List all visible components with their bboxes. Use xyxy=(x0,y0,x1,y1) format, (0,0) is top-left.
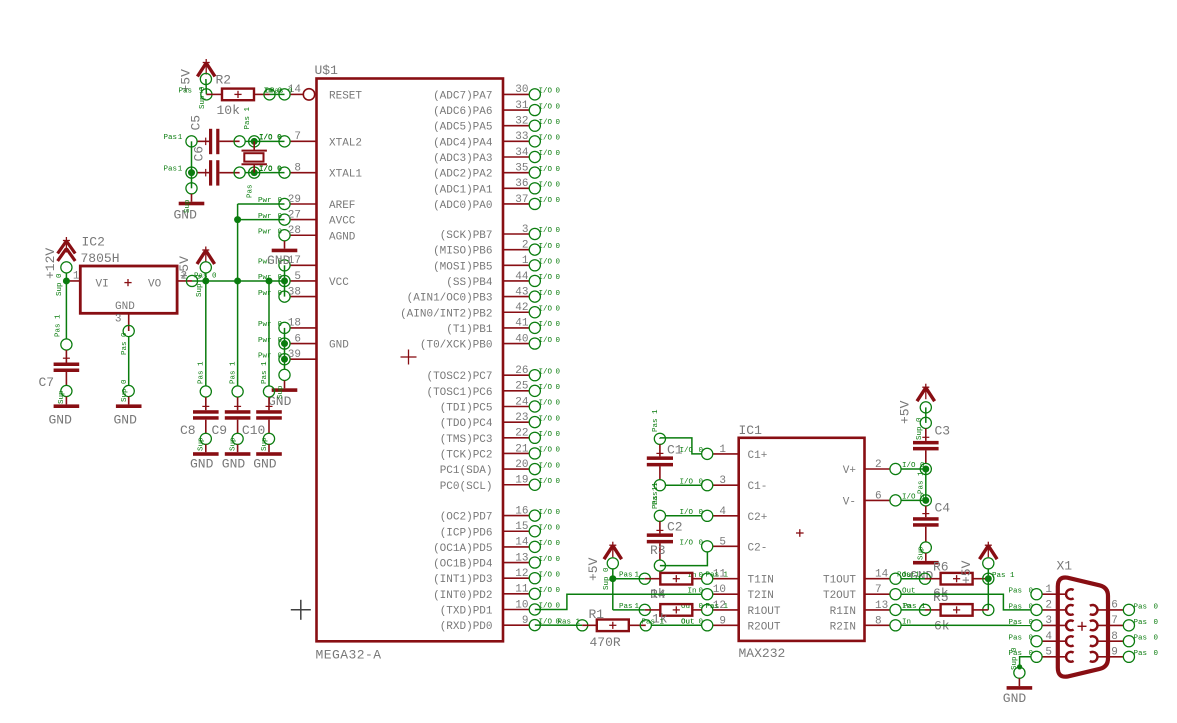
wire +5V to C3 xyxy=(925,407,927,423)
svg-text:0: 0 xyxy=(1154,603,1159,611)
U$1 pin 13 (OC1B)PD4 xyxy=(433,552,560,570)
svg-text:Sup: Sup xyxy=(184,199,192,213)
svg-text:41: 41 xyxy=(515,318,529,330)
svg-text:1: 1 xyxy=(178,165,183,173)
svg-text:PC1(SDA): PC1(SDA) xyxy=(440,465,493,477)
svg-text:8: 8 xyxy=(294,162,301,174)
junction R6 right / +5V / R5 xyxy=(983,573,994,584)
svg-text:Pas 0: Pas 0 xyxy=(270,87,293,95)
text Sup 0 c7 gnd xyxy=(58,390,66,404)
wire RXD PD0 to R1 xyxy=(535,624,582,626)
svg-text:1: 1 xyxy=(522,255,529,267)
text Sup 0 +12v xyxy=(56,273,64,296)
pin circle IC2 pin3 xyxy=(123,325,134,336)
svg-text:GND: GND xyxy=(222,457,246,472)
svg-text:C2-: C2- xyxy=(748,542,768,554)
svg-text:29: 29 xyxy=(288,194,301,206)
svg-text:T1OUT: T1OUT xyxy=(823,575,856,587)
pin circle R3 left xyxy=(639,573,650,584)
svg-text:R2OUT: R2OUT xyxy=(748,621,781,633)
label R1 value 470R xyxy=(590,635,621,650)
svg-text:Sup: Sup xyxy=(198,437,206,451)
pin circle X1 gnd xyxy=(1014,667,1025,678)
svg-text:I/O: I/O xyxy=(539,337,553,345)
IC IC1 MAX232 body xyxy=(739,438,865,641)
svg-text:3: 3 xyxy=(1045,615,1052,627)
svg-text:0: 0 xyxy=(278,321,283,329)
svg-text:GND: GND xyxy=(329,340,349,352)
svg-text:38: 38 xyxy=(288,286,301,298)
text Rds 1 t1out xyxy=(897,572,920,580)
wire C1 bottom to pin3 xyxy=(665,484,701,486)
IC1 pin 6 V- xyxy=(843,490,925,508)
text Sup 0 c4 gnd xyxy=(918,546,926,560)
svg-text:I/O: I/O xyxy=(539,571,553,579)
text I/O 0 XTAL2 xyxy=(259,134,282,142)
svg-text:R3: R3 xyxy=(650,543,666,558)
ground symbol (X1 pin 5) xyxy=(1007,678,1033,689)
C6 left lead xyxy=(197,169,209,177)
svg-text:I/O: I/O xyxy=(539,135,553,143)
svg-text:1: 1 xyxy=(719,444,726,456)
pin circle C7 top xyxy=(61,339,72,350)
IC1 pin 1 C1+ xyxy=(680,444,768,462)
junction rail / C10 xyxy=(266,277,273,284)
svg-text:T2OUT: T2OUT xyxy=(823,590,856,602)
svg-text:(ADC2)PA2: (ADC2)PA2 xyxy=(433,169,492,181)
svg-text:1: 1 xyxy=(1045,584,1052,596)
svg-text:7: 7 xyxy=(294,131,301,143)
svg-text:0: 0 xyxy=(556,478,561,486)
svg-text:+5V: +5V xyxy=(177,256,192,280)
svg-text:14: 14 xyxy=(515,537,529,549)
svg-text:2: 2 xyxy=(522,239,529,251)
svg-text:0: 0 xyxy=(556,135,561,143)
text Pas 1 r5 left xyxy=(903,603,926,611)
svg-text:V+: V+ xyxy=(843,465,856,477)
label IC1 name xyxy=(739,423,763,438)
junction C3 bottom xyxy=(922,466,929,473)
svg-text:1: 1 xyxy=(178,134,183,142)
capacitor C10 xyxy=(256,397,282,433)
U$1 pin 5 xyxy=(258,271,349,289)
svg-text:I/O: I/O xyxy=(259,134,273,142)
svg-text:Pas: Pas xyxy=(1134,619,1148,627)
X1 pin 1 xyxy=(1009,584,1074,600)
svg-text:27: 27 xyxy=(288,209,301,221)
pin circle C8 bottom xyxy=(200,433,211,444)
svg-text:0: 0 xyxy=(556,321,561,329)
svg-text:R1: R1 xyxy=(589,607,605,622)
label IC1 value MAX232 xyxy=(739,646,786,661)
pin circle C9 bottom xyxy=(232,433,243,444)
wire T2OUT to X1 pin2 xyxy=(901,594,1031,610)
U$1 pin 9 (RXD)PD0 xyxy=(440,615,561,633)
U$1 pin 7 xyxy=(259,131,362,149)
resistor R3 xyxy=(645,573,702,585)
svg-text:Pas 1: Pas 1 xyxy=(261,361,269,384)
svg-text:C7: C7 xyxy=(39,375,55,390)
svg-text:Pas: Pas xyxy=(164,165,178,173)
junction GND pin 6 xyxy=(281,340,288,347)
U$1 pin 43 (AIN1/OC0)PB3 xyxy=(407,286,561,304)
text Sup C9 gnd xyxy=(229,437,237,451)
label C9 name xyxy=(212,423,228,438)
svg-text:I/O: I/O xyxy=(539,305,553,313)
svg-text:C2+: C2+ xyxy=(748,512,768,524)
svg-text:Pas: Pas xyxy=(179,87,193,95)
label GND agnd xyxy=(267,253,291,268)
svg-text:3: 3 xyxy=(115,314,122,326)
svg-text:I/O: I/O xyxy=(259,165,273,173)
svg-text:31: 31 xyxy=(515,100,529,112)
svg-text:I/O: I/O xyxy=(539,290,553,298)
svg-text:0: 0 xyxy=(1154,619,1159,627)
svg-text:25: 25 xyxy=(515,381,528,393)
text Pas 1 r3 left xyxy=(619,572,640,580)
X1 pin 8 xyxy=(1090,631,1159,647)
wire +5V down xyxy=(205,273,207,281)
svg-text:6: 6 xyxy=(294,333,301,345)
svg-text:GND: GND xyxy=(115,301,135,313)
svg-text:11: 11 xyxy=(515,584,529,596)
svg-text:C8: C8 xyxy=(180,423,196,438)
svg-text:28: 28 xyxy=(288,225,301,237)
U$1 pin 32 (ADC5)PA5 xyxy=(433,116,560,134)
IC1 pin 4 C2+ xyxy=(680,506,768,524)
svg-text:Pas 1: Pas 1 xyxy=(244,106,252,129)
X1 pin 9 xyxy=(1090,647,1159,663)
svg-text:0: 0 xyxy=(556,415,561,423)
svg-text:AGND: AGND xyxy=(329,231,356,243)
svg-text:44: 44 xyxy=(515,271,529,283)
svg-text:XTAL1: XTAL1 xyxy=(329,169,362,181)
IC1 pin 12 R1OUT xyxy=(681,600,781,618)
pin circle C10 bottom xyxy=(263,433,274,444)
label VO xyxy=(148,279,162,291)
svg-text:Pas: Pas xyxy=(1009,588,1023,596)
svg-text:GND: GND xyxy=(114,413,138,428)
svg-text:(AIN1/OC0)PB3: (AIN1/OC0)PB3 xyxy=(407,293,493,305)
svg-text:Pas 1: Pas 1 xyxy=(198,361,206,384)
junction rail / C9 xyxy=(234,277,241,284)
svg-text:2: 2 xyxy=(1045,600,1052,612)
svg-text:(TOSC1)PC6: (TOSC1)PC6 xyxy=(426,387,492,399)
svg-text:MAX232: MAX232 xyxy=(739,646,786,661)
svg-text:Pas: Pas xyxy=(164,134,178,142)
svg-text:Pas 1: Pas 1 xyxy=(706,603,729,611)
wire +12V to VI xyxy=(65,273,67,281)
wire VCC pins 17-38 vertical xyxy=(284,265,286,296)
svg-text:+5V: +5V xyxy=(898,400,913,424)
IC1 pin 11 T1IN xyxy=(688,569,774,587)
svg-text:(ADC4)PA4: (ADC4)PA4 xyxy=(433,137,493,149)
text Pas 1 crystal top xyxy=(244,106,252,129)
capacitor C7 xyxy=(54,350,80,385)
svg-text:26: 26 xyxy=(515,365,528,377)
svg-text:0: 0 xyxy=(556,182,561,190)
label GND c10 xyxy=(253,457,277,472)
svg-text:0: 0 xyxy=(556,259,561,267)
U$1 pin 23 (TDO)PC4 xyxy=(440,412,561,430)
wire AREF/AVCC column xyxy=(237,204,239,281)
text Pas 1 (R2 left pin) xyxy=(179,87,205,95)
svg-text:I/O: I/O xyxy=(539,384,553,392)
svg-text:AVCC: AVCC xyxy=(329,216,356,228)
svg-text:0: 0 xyxy=(1029,588,1034,596)
svg-text:Sup 0: Sup 0 xyxy=(121,379,129,402)
wire R1 to R2OUT xyxy=(651,624,701,626)
svg-text:0: 0 xyxy=(556,462,561,470)
pin circle C3 top xyxy=(920,417,931,428)
capacitor C9 xyxy=(225,397,251,433)
wire R2IN to X1 pin3 xyxy=(901,624,1031,626)
U$1 pin 1 (MOSI)PB5 xyxy=(433,255,560,273)
IC U$1 MEGA32-A body xyxy=(317,79,504,642)
U$1 pin 11 (INT0)PD2 xyxy=(433,584,560,602)
label R5 value 6k xyxy=(934,619,950,634)
svg-text:0: 0 xyxy=(556,524,561,532)
U$1 pin 31 (ADC6)PA6 xyxy=(433,100,560,118)
svg-text:0: 0 xyxy=(556,274,561,282)
svg-text:0: 0 xyxy=(556,571,561,579)
X1 pin 7 xyxy=(1090,615,1159,631)
svg-text:Pas: Pas xyxy=(1134,650,1148,658)
ground symbol (C9) xyxy=(225,444,251,455)
wire V+ to C3 xyxy=(901,468,926,470)
X1 pin 6 xyxy=(1090,600,1159,616)
IC1 pin 3 C1- xyxy=(680,475,768,493)
U$1 pin 40 (T0/XCK)PB0 xyxy=(420,333,561,351)
label GND c8 xyxy=(190,457,214,472)
svg-text:I/O: I/O xyxy=(539,321,553,329)
ground symbol (C4) xyxy=(913,553,939,564)
label R3 name xyxy=(650,543,666,558)
svg-text:IC1: IC1 xyxy=(739,423,763,438)
svg-text:Rds 1: Rds 1 xyxy=(897,572,920,580)
resistor R4 xyxy=(645,604,702,616)
svg-text:0: 0 xyxy=(556,119,561,127)
pin circle R1 left xyxy=(577,620,588,631)
IC1 pin 8 R2IN xyxy=(830,615,911,633)
svg-text:Pas 1: Pas 1 xyxy=(918,471,926,494)
label U$1 value MEGA32-A xyxy=(316,648,382,663)
svg-text:XTAL2: XTAL2 xyxy=(329,137,362,149)
svg-text:(RXD)PD0: (RXD)PD0 xyxy=(440,621,493,633)
svg-text:(T0/XCK)PB0: (T0/XCK)PB0 xyxy=(420,340,493,352)
svg-text:I/O: I/O xyxy=(539,166,553,174)
capacitor C1 xyxy=(647,444,673,480)
power +12V xyxy=(58,237,76,261)
svg-text:13: 13 xyxy=(515,552,528,564)
svg-text:Sup: Sup xyxy=(277,385,285,399)
pin circle R1 right xyxy=(640,620,651,631)
junction C4 top xyxy=(922,497,929,504)
text Pas 1 r4 right xyxy=(706,603,729,611)
svg-text:R6: R6 xyxy=(933,560,949,575)
wire +5V to R4 column xyxy=(612,579,614,610)
svg-text:C9: C9 xyxy=(212,423,228,438)
svg-text:0: 0 xyxy=(556,197,561,205)
svg-text:Sup 0: Sup 0 xyxy=(56,273,64,296)
svg-text:R1OUT: R1OUT xyxy=(748,606,781,618)
U$1 pin 8 xyxy=(259,162,362,180)
pin circle C1 bottom xyxy=(654,480,665,491)
svg-text:(SCK)PB7: (SCK)PB7 xyxy=(440,230,493,242)
text Pas 1 r3 right xyxy=(706,572,729,580)
IC2 pin 2 VO xyxy=(177,270,192,282)
wire TXD PD1 to T2IN xyxy=(535,594,702,609)
text Pas 1 c7 top xyxy=(55,314,63,337)
text Pas 1 C9 top xyxy=(229,361,237,384)
svg-text:GND: GND xyxy=(190,457,214,472)
svg-text:Pas 1: Pas 1 xyxy=(706,572,729,580)
svg-text:(OC2)PD7: (OC2)PD7 xyxy=(440,512,493,524)
U$1 pin 42 (AIN0/INT2)PB2 xyxy=(400,302,560,320)
svg-text:I/O: I/O xyxy=(539,88,553,96)
sheet origin cross xyxy=(291,600,311,620)
capacitor C8 xyxy=(193,397,219,433)
svg-text:15: 15 xyxy=(515,521,528,533)
wire +5V max down xyxy=(612,569,614,579)
junction x1 gnd xyxy=(1017,664,1022,669)
text Pas 1 C5 left xyxy=(164,134,183,142)
pin circle +5V vcc supply xyxy=(200,262,211,273)
svg-text:0: 0 xyxy=(278,228,283,236)
label GND xtal xyxy=(174,208,198,223)
power +5V (max232) xyxy=(604,542,622,560)
svg-text:PC0(SCL): PC0(SCL) xyxy=(440,481,493,493)
svg-text:U$1: U$1 xyxy=(315,63,339,78)
svg-text:Pas: Pas xyxy=(619,603,633,611)
svg-text:(MISO)PB6: (MISO)PB6 xyxy=(433,246,492,258)
U$1 pin 22 (TMS)PC3 xyxy=(440,428,561,446)
X1 center cross xyxy=(1078,622,1087,631)
pin circle C4 top xyxy=(920,495,931,506)
svg-text:I/O: I/O xyxy=(539,524,553,532)
pin circle C6 right xyxy=(234,167,245,178)
pin circle C7 bottom xyxy=(61,385,72,396)
svg-text:(ICP)PD6: (ICP)PD6 xyxy=(440,527,493,539)
svg-text:+5V: +5V xyxy=(959,560,974,584)
svg-text:C1+: C1+ xyxy=(748,450,768,462)
U$1 pin 10 (TXD)PD1 xyxy=(440,599,561,617)
svg-text:0: 0 xyxy=(556,509,561,517)
U$1 pin 36 (ADC1)PA1 xyxy=(433,178,560,196)
svg-text:T2IN: T2IN xyxy=(748,590,774,602)
power +5V (serial pull-up) xyxy=(980,542,998,560)
IC1 internal cross xyxy=(796,529,804,537)
pin circle R6 left xyxy=(919,573,930,584)
svg-text:20: 20 xyxy=(515,459,528,471)
svg-text:Pas 1: Pas 1 xyxy=(903,603,926,611)
svg-text:0: 0 xyxy=(556,447,561,455)
svg-text:0: 0 xyxy=(277,134,282,142)
svg-text:0: 0 xyxy=(1029,619,1034,627)
U$1 pin 38 xyxy=(258,286,317,302)
pin circle +5V supply xyxy=(200,73,211,84)
wire R2 to RESET pin xyxy=(270,93,285,95)
svg-text:0: 0 xyxy=(1154,635,1159,643)
wire XTAL2 row xyxy=(245,140,284,142)
svg-text:I/O: I/O xyxy=(539,462,553,470)
pin circle R2 left xyxy=(201,89,212,100)
svg-text:9: 9 xyxy=(719,615,726,627)
svg-text:Pas: Pas xyxy=(619,572,633,580)
svg-text:Pas 1: Pas 1 xyxy=(992,572,1015,580)
label U$1 name xyxy=(315,63,339,78)
resistor R5 xyxy=(925,604,988,616)
svg-text:8: 8 xyxy=(875,615,882,627)
label GND x1 xyxy=(1003,691,1027,706)
text Pas 0 vo pin xyxy=(194,272,217,280)
svg-text:Pas: Pas xyxy=(1134,635,1148,643)
svg-text:(OC1A)PD5: (OC1A)PD5 xyxy=(433,543,492,555)
wire GND pins 18-39 vertical xyxy=(284,328,286,370)
IC1 pin 14 T1OUT xyxy=(823,569,916,587)
svg-text:33: 33 xyxy=(515,131,528,143)
wire C3 to C4 xyxy=(925,469,927,500)
label GND ic2 xyxy=(114,413,138,428)
svg-text:(T1)PB1: (T1)PB1 xyxy=(446,324,493,336)
svg-text:I/O: I/O xyxy=(539,243,553,251)
wire C5-C6 left column xyxy=(191,141,193,188)
svg-text:5: 5 xyxy=(1045,647,1052,659)
svg-text:4: 4 xyxy=(719,506,726,518)
label X1 name xyxy=(1057,559,1073,574)
text Sup C8 gnd xyxy=(198,437,206,451)
label +5V vcc vertical xyxy=(177,256,192,280)
svg-text:9: 9 xyxy=(522,615,529,627)
svg-text:35: 35 xyxy=(515,162,528,174)
wire C2 top to pin4 xyxy=(665,515,701,517)
pin circle C10 top xyxy=(263,386,274,397)
label C10 name xyxy=(242,423,265,438)
svg-text:24: 24 xyxy=(515,396,529,408)
svg-text:Sup: Sup xyxy=(229,437,237,451)
wire X1 pin5 to gnd xyxy=(1020,657,1031,667)
label C3 name xyxy=(935,424,951,439)
svg-text:5: 5 xyxy=(294,271,301,283)
wire +5V to R2 xyxy=(205,79,208,94)
svg-text:GND: GND xyxy=(253,457,277,472)
wire AREF row xyxy=(238,203,285,205)
svg-text:(ADC7)PA7: (ADC7)PA7 xyxy=(433,90,492,102)
U$1 pin 33 (ADC4)PA4 xyxy=(433,131,560,149)
pin circle +5V c3 supply xyxy=(920,402,931,413)
U$1 origin cross xyxy=(401,350,417,365)
svg-text:2: 2 xyxy=(875,459,882,471)
wire C9 column xyxy=(237,281,239,386)
svg-text:7: 7 xyxy=(875,584,882,596)
pin circle mcu gnd wire end xyxy=(279,369,290,380)
svg-text:10: 10 xyxy=(713,584,726,596)
text Pas 1 C10 top xyxy=(261,361,269,384)
resistor R1 xyxy=(582,620,646,632)
text Out 0 r2out xyxy=(681,618,695,626)
svg-text:MEGA32-A: MEGA32-A xyxy=(316,648,382,663)
power +5V (vcc rail) xyxy=(197,247,215,265)
svg-text:R1IN: R1IN xyxy=(830,606,856,618)
svg-text:C2: C2 xyxy=(667,520,683,535)
wire VCC rail xyxy=(192,280,285,282)
svg-text:Pas: Pas xyxy=(1009,603,1023,611)
resistor R6 xyxy=(925,573,988,585)
svg-text:AREF: AREF xyxy=(329,200,355,212)
U$1 pin 30 (ADC7)PA7 xyxy=(433,84,560,102)
wire IC2 gnd column xyxy=(128,337,130,386)
wire +5V serial down xyxy=(987,569,989,579)
